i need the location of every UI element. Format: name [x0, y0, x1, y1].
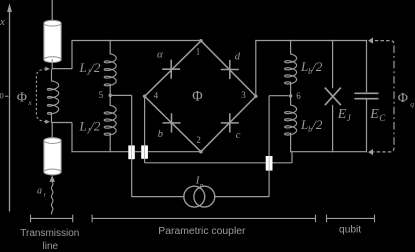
svg-text:L: L	[79, 60, 87, 75]
label Transmission line	[20, 228, 79, 252]
label alpha	[157, 49, 163, 61]
dimension line transmission line	[31, 215, 73, 223]
node 4	[143, 95, 147, 99]
capacitor C2 plates	[141, 145, 148, 158]
label phi-q	[398, 91, 415, 109]
bridge arm b (4-2)	[145, 96, 201, 151]
wire rail to Lb2 coil	[290, 40, 292, 55]
flux arrow head phi-q bottom	[368, 149, 373, 155]
svg-text:b: b	[158, 129, 163, 140]
top rail left	[71, 40, 201, 42]
dimension line qubit	[327, 215, 375, 223]
svg-text:E: E	[369, 107, 379, 122]
wire node5 to lower coil	[109, 95, 111, 105]
wire lower coil to qubit rail	[290, 133, 292, 153]
node 1	[199, 39, 203, 43]
bridge arm d (1-3)	[201, 41, 256, 96]
svg-text:r: r	[44, 191, 47, 198]
svg-text:a: a	[37, 186, 42, 197]
svg-text:C: C	[379, 113, 386, 123]
coax cylinder bottom	[44, 138, 61, 175]
label EC	[369, 107, 386, 123]
wire EJ column top	[332, 40, 334, 88]
label c	[236, 130, 241, 141]
bottom rail to node 2	[148, 151, 199, 153]
svg-text:L: L	[300, 117, 308, 132]
label a_r	[37, 186, 47, 199]
svg-text:5: 5	[99, 90, 104, 100]
label Lb/2 upper	[300, 59, 323, 76]
label Parametric coupler	[158, 226, 246, 237]
wire node4 down	[145, 96, 266, 163]
label 4	[154, 91, 159, 101]
inductor coil phi-x	[47, 69, 58, 123]
wire node B to cylinder2	[51, 123, 53, 142]
inductor LJ/2 upper	[104, 54, 116, 86]
svg-text:/2: /2	[311, 117, 323, 132]
label d	[235, 52, 241, 63]
label LJ/2 lower	[79, 119, 101, 136]
flux line phi-q dashed bottom	[369, 148, 394, 152]
dimension line parametric coupler	[92, 215, 315, 223]
svg-text:1: 1	[196, 46, 201, 56]
svg-text:3: 3	[241, 90, 246, 100]
label 5	[99, 90, 104, 100]
node 3	[254, 94, 257, 98]
flux line phi-q dashed top	[369, 41, 394, 45]
flux arrow head phi-q top	[368, 38, 373, 44]
label phi center	[192, 88, 202, 104]
wire EC column top	[366, 40, 368, 92]
axis label x	[0, 16, 5, 28]
svg-text:0: 0	[0, 91, 4, 101]
label qubit	[339, 224, 361, 235]
bridge arm c (3-2)	[201, 96, 256, 152]
wire cap3 to qubit rail	[273, 152, 293, 163]
incoming wave arrowhead	[49, 175, 55, 182]
svg-text:Φ: Φ	[398, 91, 408, 106]
josephson junction EJ	[325, 88, 341, 106]
label phi-x	[17, 90, 33, 107]
svg-text:/2: /2	[311, 59, 323, 74]
coax cylinder top	[44, 20, 61, 62]
svg-text:d: d	[235, 52, 241, 63]
wire rail to LJ2 top coil	[109, 40, 111, 54]
wire EJ column bottom	[332, 105, 334, 153]
inductor Lb/2 upper	[285, 54, 297, 84]
incoming wave squiggle	[51, 182, 53, 215]
flux arrow phi-x dashed loop	[36, 69, 46, 122]
wire node6 to lower coil	[290, 96, 292, 105]
svg-text:α: α	[157, 49, 163, 61]
capacitor C3 plates	[266, 156, 273, 171]
svg-text:/2: /2	[89, 119, 101, 134]
junction a cross	[162, 60, 180, 79]
wire node5 branch	[110, 95, 184, 196]
wire node6 branch	[215, 96, 289, 197]
wire top feed	[51, 0, 53, 24]
label LJ/2 upper	[79, 60, 101, 77]
svg-text:/2: /2	[89, 60, 101, 75]
svg-text:p: p	[199, 180, 204, 189]
node 2	[199, 150, 203, 154]
junction c cross	[221, 113, 239, 132]
node A branch wire	[52, 40, 72, 69]
bottom rail mid segment	[135, 151, 141, 153]
svg-text:Φ: Φ	[192, 88, 202, 104]
svg-text:6: 6	[296, 91, 301, 101]
x axis line	[9, 11, 11, 212]
flux arrow head top	[45, 67, 50, 72]
svg-text:4: 4	[154, 91, 159, 101]
svg-text:line: line	[43, 241, 59, 252]
label EJ	[337, 107, 352, 123]
svg-text:qubit: qubit	[339, 224, 361, 235]
qubit bottom rail	[290, 151, 367, 153]
wire coil to node 6	[290, 82, 292, 96]
node B branch wire	[52, 123, 72, 153]
wire EC column bottom	[366, 100, 368, 153]
x axis arrowhead	[7, 3, 12, 12]
flux arrow head bottom	[45, 119, 50, 124]
svg-text:E: E	[337, 107, 347, 122]
svg-text:2: 2	[196, 135, 201, 145]
svg-text:Transmission: Transmission	[20, 228, 79, 239]
label 3	[241, 90, 246, 100]
flux line phi-q dashed right	[393, 46, 395, 147]
junction b cross	[163, 113, 181, 132]
label b	[158, 129, 163, 140]
capacitor EC plates	[354, 93, 378, 98]
svg-text:Φ: Φ	[17, 90, 27, 105]
inductor LJ/2 lower	[104, 105, 116, 135]
svg-text:J: J	[347, 113, 352, 123]
node 5	[108, 94, 112, 98]
svg-text:q: q	[410, 99, 414, 108]
label Lb/2 lower	[300, 117, 323, 134]
capacitor C1 plates	[128, 145, 135, 159]
svg-text:x: x	[27, 98, 32, 107]
bottom rail left	[71, 151, 128, 153]
wire node3 riser	[255, 40, 367, 96]
node 6	[289, 94, 293, 98]
svg-text:x: x	[0, 16, 5, 28]
label 6	[296, 91, 301, 101]
svg-text:Parametric coupler: Parametric coupler	[158, 226, 246, 237]
wire lower coil to rail	[109, 133, 111, 153]
wire cylinder1 to node A	[51, 59, 53, 69]
junction d cross	[221, 60, 239, 79]
label Ip	[195, 175, 204, 190]
svg-text:L: L	[79, 119, 87, 134]
svg-text:c: c	[236, 130, 241, 141]
label 2	[196, 135, 201, 145]
wire coil to node 5	[109, 84, 111, 96]
inductor Lb/2 lower	[285, 105, 297, 135]
svg-text:L: L	[300, 59, 308, 74]
current source Ip	[184, 186, 215, 207]
bridge arm a (1-4)	[145, 41, 201, 97]
axis origin label 0	[0, 91, 8, 101]
label 1	[196, 46, 201, 56]
